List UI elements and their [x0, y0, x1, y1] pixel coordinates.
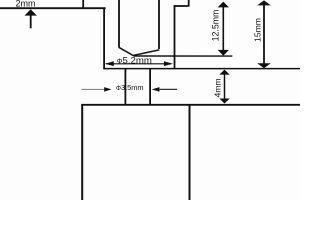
arrow 2mm pointer	[25, 9, 37, 15]
arrow phi5.2 right	[164, 61, 173, 66]
arrow phi3.5 right	[152, 87, 160, 92]
dimension 15mm shaft	[263, 4, 265, 65]
wire nozzle bore right wall	[149, 68, 151, 105]
dimension 12.5mm shaft	[222, 6, 224, 52]
wire 2mm pointer shaft	[30, 15, 32, 28]
arrow phi3.5 left	[104, 87, 111, 92]
wire substrate inner edge	[189, 104, 191, 200]
wire left inner wall	[118, 0, 120, 47]
dimension phi 5.2mm line	[106, 63, 171, 65]
dimension 4mm shaft	[224, 73, 226, 101]
wire right outer wall	[174, 5, 176, 69]
svg-text:4mm: 4mm	[212, 78, 222, 97]
wire right inner wall	[158, 0, 160, 49]
wire phi3.5 left leader	[82, 88, 106, 90]
svg-text:2mm: 2mm	[16, 0, 36, 9]
arrow 15mm down	[257, 63, 271, 68]
arrow 12.5mm down	[218, 50, 229, 56]
arrow phi5.2 left	[105, 61, 114, 66]
wire right step horizontal	[174, 5, 189, 7]
arrow 12.5mm up	[218, 2, 229, 8]
wire cone bottom	[119, 47, 160, 55]
wire phi3.5 right leader	[159, 88, 177, 90]
wire tip extension line	[134, 55, 233, 57]
arrow 4mm down	[219, 99, 229, 104]
wire left outer wall	[103, 8, 105, 70]
svg-text:Φ3.5mm: Φ3.5mm	[116, 83, 144, 92]
arrow 15mm up	[257, 0, 271, 5]
wire right step vertical	[188, 0, 190, 7]
arrow 4mm up	[219, 70, 229, 75]
wire top plate line	[0, 7, 106, 9]
svg-text:12.5mm: 12.5mm	[210, 10, 220, 42]
wire top tick	[82, 0, 84, 9]
wire nozzle bore left wall	[124, 68, 126, 105]
svg-text:Φ5.2mm: Φ5.2mm	[117, 56, 152, 67]
wire substrate left edge	[81, 104, 83, 200]
wire holder bottom line	[103, 68, 300, 70]
svg-text:15mm: 15mm	[253, 18, 263, 42]
wire substrate top line	[81, 104, 300, 106]
